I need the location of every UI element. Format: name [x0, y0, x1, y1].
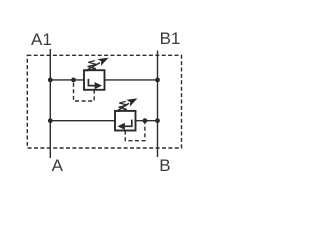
pilot line V2 (dashed, from upstream node to V2 spring chamber): [125, 121, 145, 141]
junction: V1 pilot tap on upper branch: [71, 78, 76, 83]
wire: line B (vertical from port B to B1): [157, 51, 159, 158]
pilot line V1 (dashed, from upstream node to V1 spring chamber): [74, 80, 95, 101]
relief valve V1 adjustment arrow: [85, 63, 100, 71]
wire: upper branch (A to B through valve V1): [50, 79, 157, 81]
junction: node B / upper branch: [155, 78, 160, 83]
svg-text:B: B: [159, 156, 170, 175]
relief valve V1 flow arrow (offset elbow, flow A to B): [88, 79, 95, 86]
junction: node A / upper branch: [48, 78, 53, 83]
wire: lower branch (B to A through valve V2): [50, 120, 157, 122]
junction: V2 pilot tap on lower branch: [143, 118, 148, 123]
svg-text:B1: B1: [160, 29, 181, 48]
relief valve V2 spring: [118, 101, 127, 111]
enclosure: dashed valve-block boundary: [27, 55, 181, 148]
svg-text:A1: A1: [31, 30, 52, 49]
relief valve V1 spring: [87, 61, 96, 71]
junction: node A / lower branch: [48, 118, 53, 123]
relief valve V2 body: [115, 111, 136, 131]
relief valve V1 body: [84, 70, 105, 90]
wire: line A (vertical from port A to A1): [49, 49, 51, 158]
svg-text:A: A: [52, 156, 64, 175]
relief valve V2 adjustment arrow: [116, 103, 129, 111]
relief valve V2 flow arrow (offset elbow, flow B to A): [124, 120, 132, 127]
junction: node B / lower branch: [155, 118, 160, 123]
